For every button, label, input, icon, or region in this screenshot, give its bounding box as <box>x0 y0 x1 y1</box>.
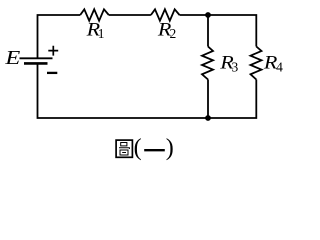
wire: R2 to top junction <box>180 14 209 16</box>
wire: top junction down to R3 <box>207 15 209 47</box>
glyph 圖 inner tick (回 inner) <box>122 152 126 154</box>
wire: left edge upper + top-left segment to R1 <box>38 15 81 59</box>
node: top junction dot <box>205 12 211 18</box>
battery E <box>4 46 58 73</box>
svg-text:E: E <box>4 47 20 69</box>
glyph 一 (one) <box>144 149 165 151</box>
minus sign <box>47 72 57 74</box>
battery short plate (negative) <box>24 62 48 65</box>
wire: R3 to bottom junction <box>207 80 209 119</box>
svg-text:1: 1 <box>98 26 105 41</box>
plus sign <box>48 46 58 56</box>
battery long plate (positive) <box>20 57 53 59</box>
glyph 圖 inner top box (口) <box>121 143 127 146</box>
resistor R2 <box>151 9 180 41</box>
wire: between R1 and R2 <box>109 14 151 16</box>
svg-text:2: 2 <box>170 26 177 41</box>
wire: top junction to top-right corner down to R4 <box>208 15 256 47</box>
node: bottom junction dot <box>205 115 211 121</box>
wire: bottom junction to bottom-left corner up to battery <box>38 63 209 118</box>
svg-text:3: 3 <box>232 59 239 74</box>
glyph 圖 outer box <box>116 140 132 157</box>
svg-text:4: 4 <box>276 59 283 74</box>
resistor R3 <box>202 47 239 80</box>
svg-text:(: ( <box>134 135 142 161</box>
caption 圖(一) <box>116 135 174 161</box>
resistor R4 <box>251 47 284 80</box>
wire: R4 down to bottom-right corner, left to bottom junction <box>208 80 256 119</box>
glyph 圖 cover stroke (冖) <box>119 148 129 149</box>
resistor R1 <box>80 9 109 41</box>
glyph 圖 inner bottom box (回 outer) <box>120 150 128 155</box>
svg-text:): ) <box>166 135 174 161</box>
